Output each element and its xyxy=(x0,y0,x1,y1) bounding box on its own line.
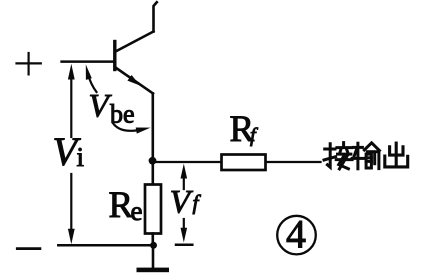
svg-text:i: i xyxy=(77,142,85,172)
wire: Rf to output xyxy=(267,161,321,163)
svg-text:V: V xyxy=(89,89,113,125)
Vbe arrow to base xyxy=(86,65,97,93)
wire: Re bottom xyxy=(152,234,155,246)
wire: input base wire xyxy=(62,60,115,63)
glyph 接 xyxy=(324,143,352,169)
svg-text:f: f xyxy=(250,125,259,147)
node junction dot (bottom node) xyxy=(150,242,157,249)
Vi dimension bottom arrow xyxy=(68,174,75,244)
output label 接输出 (hand-drawn glyphs) xyxy=(324,143,408,169)
label Vbe xyxy=(89,89,135,129)
wire: emitter lead down xyxy=(152,94,155,162)
svg-text:f: f xyxy=(193,191,202,215)
label Re xyxy=(109,185,143,226)
svg-text:4: 4 xyxy=(286,212,306,257)
svg-text:V: V xyxy=(170,185,194,221)
Vbe curved arrow to emitter xyxy=(113,123,151,134)
svg-text:e: e xyxy=(131,196,143,226)
wire: node to Rf xyxy=(153,161,221,163)
label Vf xyxy=(170,185,202,221)
glyph 输 xyxy=(352,143,379,169)
minus terminal (-) xyxy=(17,247,40,250)
resistor Re xyxy=(145,185,161,234)
plus terminal (+) xyxy=(17,53,41,74)
wire: Re top xyxy=(152,161,155,184)
wire: collector lead up xyxy=(154,2,157,31)
transistor (NPN) xyxy=(115,32,154,94)
Vi dimension top arrow xyxy=(68,64,75,137)
ground xyxy=(137,245,170,272)
wire: bottom return wire xyxy=(58,244,153,247)
label Rf xyxy=(230,109,260,150)
Vf dimension bottom arrow with tick xyxy=(176,219,192,245)
resistor Rf xyxy=(222,155,266,171)
label Vi xyxy=(53,129,85,174)
glyph 出 xyxy=(385,143,408,167)
figure number 4 (circled) xyxy=(277,212,316,257)
Vf dimension top arrow xyxy=(181,164,188,189)
node junction dot (emitter node) xyxy=(149,157,157,165)
